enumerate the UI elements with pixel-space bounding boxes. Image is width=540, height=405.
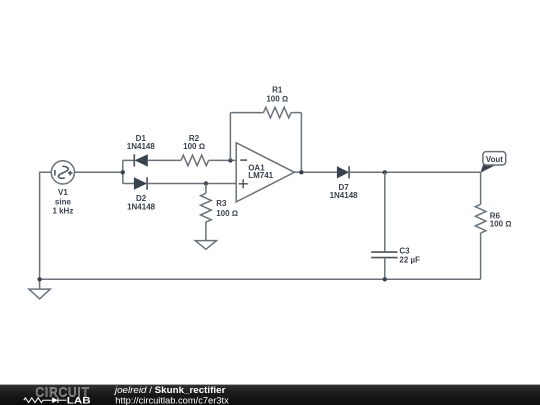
node junction C3 at ground rail <box>383 277 387 281</box>
resistor R6 <box>475 204 486 233</box>
node junction feedback at inverting input <box>228 158 232 162</box>
wire bottom ground rail <box>40 278 481 280</box>
svg-text:Vout: Vout <box>486 155 504 164</box>
diode D7 (pointing right) <box>337 166 349 178</box>
label OA1 value <box>248 163 273 180</box>
svg-text:100 Ω: 100 Ω <box>216 209 238 218</box>
svg-text:1N4148: 1N4148 <box>127 203 156 212</box>
wire R3 bottom lead <box>205 222 207 241</box>
wire op-amp output to D7 <box>294 171 337 173</box>
label R2 value <box>183 134 205 151</box>
wire V1 to input junction <box>75 171 123 173</box>
label C3 value <box>399 246 420 264</box>
resistor R3 <box>201 193 212 222</box>
capacitor C3 <box>371 252 397 258</box>
wire R6 bottom lead <box>480 233 482 279</box>
diode D1 (pointing left) <box>134 154 148 166</box>
node junction at V1 ground rail <box>37 277 41 281</box>
svg-text:1 kHz: 1 kHz <box>52 207 73 216</box>
node junction R3 tap <box>204 181 208 185</box>
wire R1 left lead <box>230 112 263 114</box>
svg-text:R3: R3 <box>216 199 227 208</box>
voltage source V1 <box>51 161 74 184</box>
wire D1 to R2 <box>148 159 181 161</box>
op-amp OA1 <box>236 143 294 202</box>
svg-text:100 Ω: 100 Ω <box>490 220 512 229</box>
CircuitLab logo resistor-diode mark <box>24 397 67 403</box>
CircuitLab logo wordmark <box>35 384 91 405</box>
svg-text:LAB: LAB <box>67 395 91 405</box>
wire feedback right leg down to output <box>300 113 302 173</box>
wire R1 right lead <box>291 112 301 114</box>
label D2 value <box>127 194 156 212</box>
svg-text:joelreid / Skunk_rectifier: joelreid / Skunk_rectifier <box>114 385 226 395</box>
wire to D2 anode <box>123 183 134 185</box>
resistor R2 <box>181 155 209 166</box>
svg-text:100 Ω: 100 Ω <box>266 94 288 103</box>
ground (left, below V1) <box>29 279 50 299</box>
label R6 value <box>490 212 512 229</box>
label R3 value <box>216 199 238 218</box>
footer bar <box>0 385 540 405</box>
ground (below R3) <box>195 241 216 250</box>
wire D2 to op-amp non-inverting input <box>147 183 236 185</box>
svg-text:V1: V1 <box>58 188 68 197</box>
label R1 value <box>266 86 288 104</box>
wire V1 left lead down to ground rail <box>40 172 52 279</box>
svg-text:http://circuitlab.com/c7er3tx: http://circuitlab.com/c7er3tx <box>115 396 229 405</box>
wire to D1 cathode <box>123 159 135 161</box>
node junction input split <box>121 170 125 174</box>
wire D7 to output corner <box>349 171 481 173</box>
svg-text:22 µF: 22 µF <box>399 255 420 264</box>
wire R3 top lead <box>205 184 207 194</box>
svg-text:C3: C3 <box>399 246 410 255</box>
wire C3 top lead <box>384 172 386 252</box>
label D7 value <box>330 183 359 200</box>
svg-text:1N4148: 1N4148 <box>330 191 359 200</box>
node Vout flag <box>480 152 505 173</box>
wire feedback left leg up to R1 <box>229 113 231 161</box>
svg-text:1N4148: 1N4148 <box>127 142 156 151</box>
wire vertical split between D1 and D2 branches <box>122 160 124 183</box>
svg-text:R1: R1 <box>272 86 283 95</box>
label D1 value <box>127 134 156 151</box>
wire output corner down to R6 <box>480 172 482 204</box>
label V1 value <box>52 188 73 216</box>
node junction op-amp output / feedback <box>299 170 303 174</box>
resistor R1 <box>264 107 292 118</box>
svg-text:LM741: LM741 <box>248 171 273 180</box>
diode D2 (pointing right) <box>134 177 147 189</box>
wire C3 bottom lead <box>384 258 386 280</box>
svg-text:sine: sine <box>55 197 72 206</box>
svg-text:D2: D2 <box>136 194 147 203</box>
svg-text:100 Ω: 100 Ω <box>183 142 205 151</box>
wire R2 to op-amp inverting input <box>209 159 237 161</box>
node junction C3 tap <box>383 170 387 174</box>
